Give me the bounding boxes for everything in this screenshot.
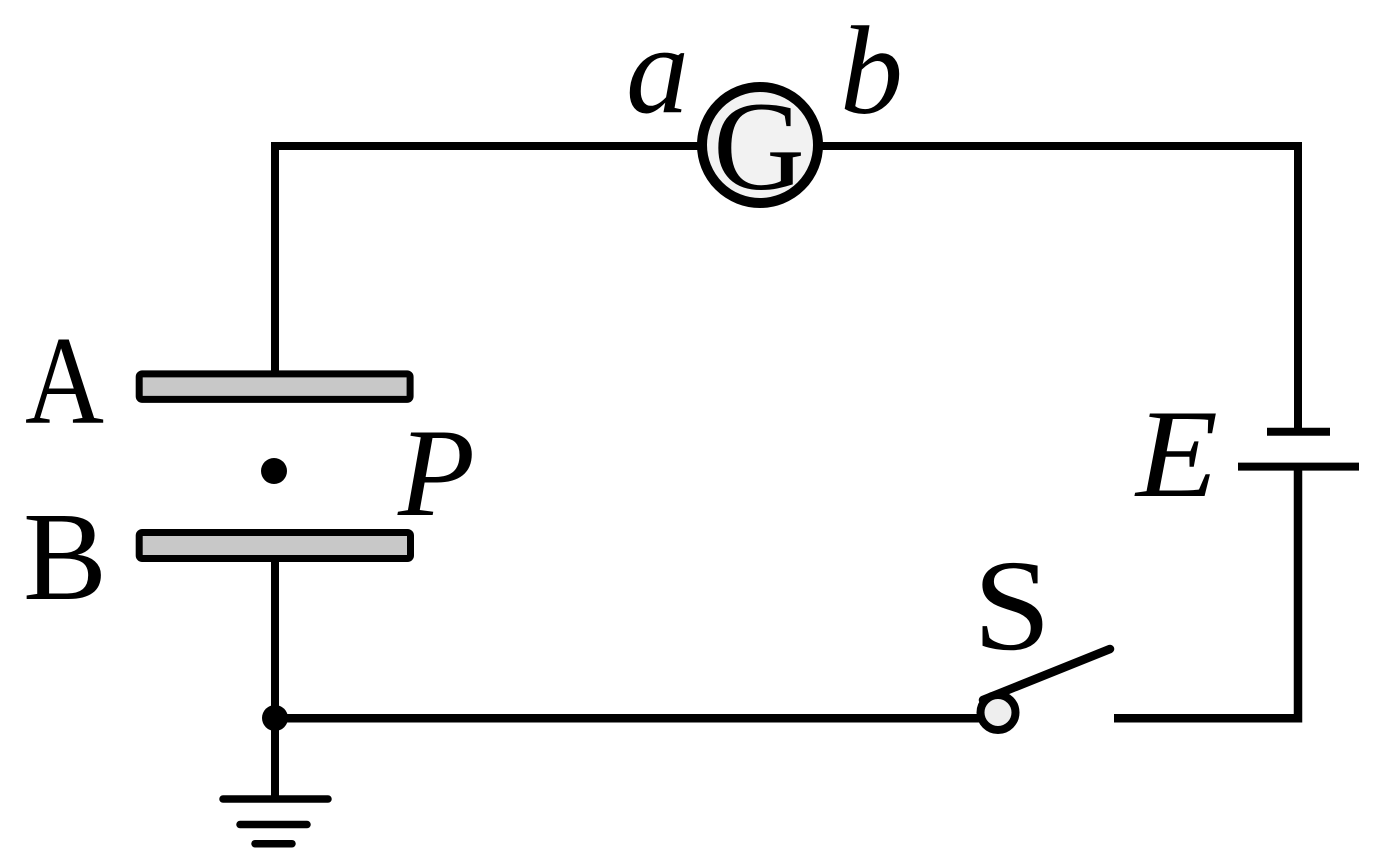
- wire: right side below battery to bottom-right corner and left to switch: [1114, 468, 1298, 718]
- battery E positive plate (long): [1238, 463, 1359, 471]
- battery E negative plate (short): [1267, 428, 1330, 436]
- junction node dot: [262, 705, 288, 731]
- ground symbol line 2: [240, 821, 307, 829]
- svg-text:b: b: [840, 2, 903, 141]
- galvanometer U1 (G) circle: [702, 87, 818, 203]
- svg-text:P: P: [397, 404, 475, 543]
- wire: plate B down through junction to ground: [271, 562, 279, 796]
- capacitor plate B (bottom): [139, 533, 410, 559]
- svg-text:a: a: [626, 1, 689, 140]
- switch S lever: [983, 649, 1110, 700]
- svg-text:S: S: [973, 534, 1051, 678]
- svg-text:B: B: [23, 488, 107, 627]
- wire: top loop from plate A up, across top, down right side: [275, 146, 1298, 429]
- capacitor plate A (top): [139, 374, 410, 400]
- svg-text:E: E: [1134, 385, 1218, 524]
- switch S pivot circle: [981, 695, 1016, 730]
- svg-text:G: G: [713, 77, 805, 217]
- wire: bottom from junction to switch: [275, 714, 990, 723]
- svg-text:A: A: [25, 312, 104, 451]
- point P dot: [261, 458, 287, 484]
- ground symbol line 3: [255, 840, 292, 848]
- ground symbol line 1: [223, 795, 328, 803]
